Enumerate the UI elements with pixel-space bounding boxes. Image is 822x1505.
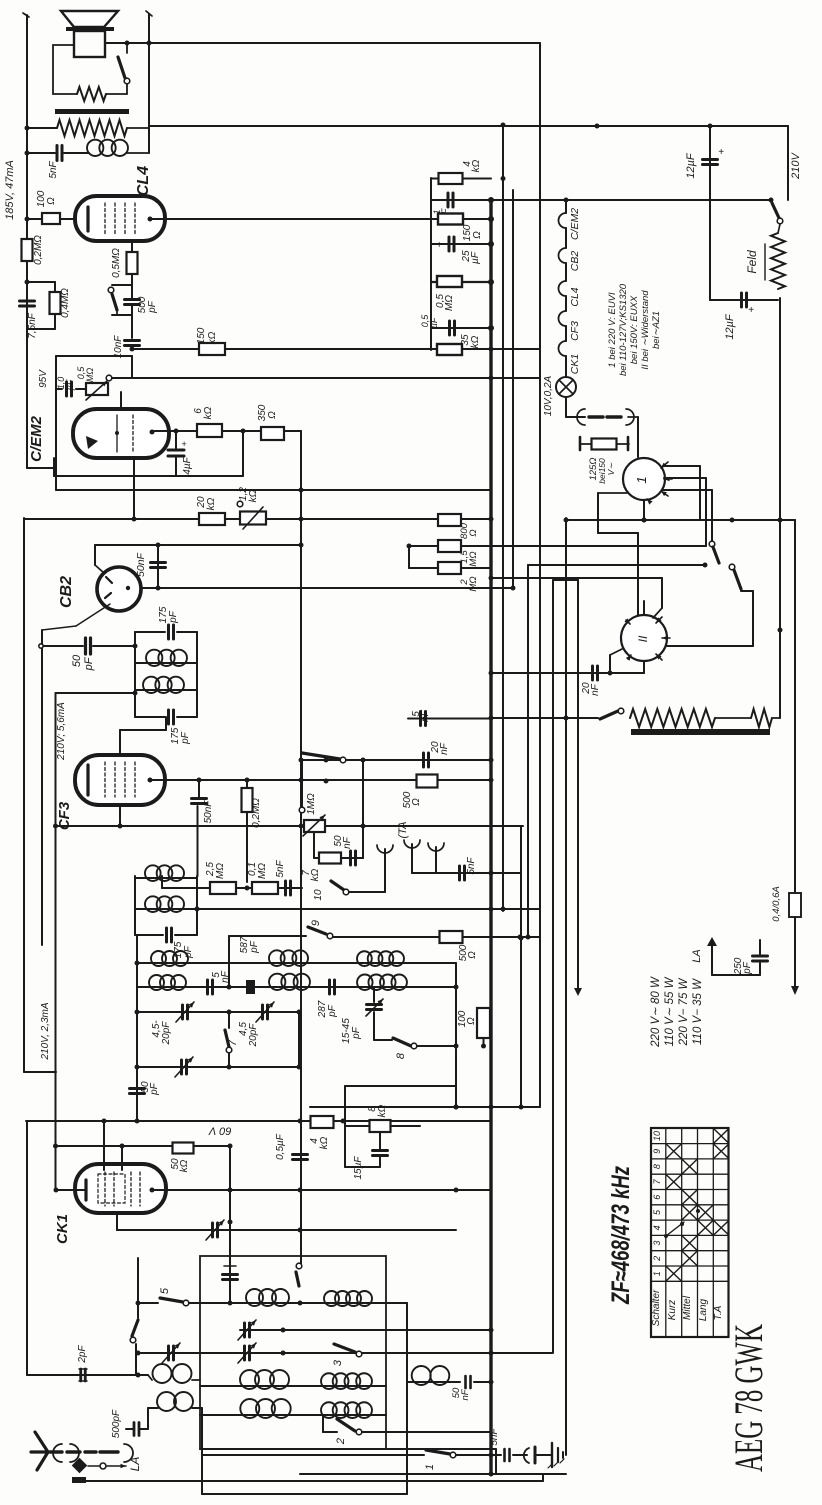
svg-text:nF: nF xyxy=(460,1388,471,1400)
svg-text:II bei ∼Widerstand: II bei ∼Widerstand xyxy=(640,290,651,370)
svg-text:4µF: 4µF xyxy=(182,456,193,474)
svg-text:7,5nF: 7,5nF xyxy=(27,312,38,338)
svg-text:5: 5 xyxy=(159,1287,171,1294)
svg-text:T.A: T.A xyxy=(713,1305,724,1320)
svg-text:Schalter: Schalter xyxy=(651,1289,662,1326)
svg-text:Ω: Ω xyxy=(466,1017,477,1025)
svg-text:5nF: 5nF xyxy=(466,856,477,874)
svg-text:210V: 210V xyxy=(790,151,802,179)
svg-text:Kurz: Kurz xyxy=(667,1300,678,1321)
svg-text:Lang: Lang xyxy=(698,1298,709,1321)
svg-text:(TA: (TA xyxy=(397,822,409,839)
svg-text:pF: pF xyxy=(351,1026,362,1040)
svg-text:2: 2 xyxy=(652,1256,662,1262)
svg-text:+: + xyxy=(748,305,754,316)
svg-text:0,5µF: 0,5µF xyxy=(275,1133,286,1160)
svg-text:0,4/0,6A: 0,4/0,6A xyxy=(771,886,782,921)
svg-text:210V, 2,3mA: 210V, 2,3mA xyxy=(40,1002,51,1060)
svg-text:1: 1 xyxy=(652,1271,662,1276)
svg-text:220 V− 75 W: 220 V− 75 W xyxy=(678,977,690,1046)
svg-text:3: 3 xyxy=(652,1241,662,1246)
svg-text:µF: µF xyxy=(470,251,481,264)
svg-text:pF: pF xyxy=(168,610,179,624)
svg-text:LA: LA xyxy=(128,1457,142,1472)
svg-text:2pF: 2pF xyxy=(77,1344,88,1363)
svg-text:0,2MΩ: 0,2MΩ xyxy=(33,235,44,265)
svg-text:0,4MΩ: 0,4MΩ xyxy=(60,288,71,318)
svg-text:1 bei 220 V: EUVI: 1 bei 220 V: EUVI xyxy=(607,292,618,368)
svg-text:kΩ: kΩ xyxy=(248,489,259,502)
svg-text:3: 3 xyxy=(332,1359,344,1366)
svg-text:nF: nF xyxy=(342,836,353,849)
svg-text:10nF: 10nF xyxy=(113,335,124,359)
svg-text:CL4: CL4 xyxy=(569,287,581,306)
svg-text:50nF: 50nF xyxy=(135,552,147,577)
svg-text:+: + xyxy=(181,439,186,449)
svg-text:10: 10 xyxy=(313,889,324,901)
svg-text:CB2: CB2 xyxy=(569,251,581,272)
svg-text:Ω: Ω xyxy=(267,411,278,419)
svg-text:Ω: Ω xyxy=(411,798,422,806)
svg-text:9: 9 xyxy=(652,1149,662,1154)
svg-text:7: 7 xyxy=(227,1039,239,1046)
svg-text:AEG 78 GWK: AEG 78 GWK xyxy=(726,1324,771,1472)
svg-text:µF: µF xyxy=(429,317,439,328)
svg-text:CF3: CF3 xyxy=(569,321,581,341)
svg-text:kΩ: kΩ xyxy=(206,497,217,510)
svg-text:10V,0,2A: 10V,0,2A xyxy=(543,375,554,416)
svg-text:CL4: CL4 xyxy=(135,166,152,196)
svg-text:10: 10 xyxy=(652,1131,662,1141)
svg-text:Λ 09: Λ 09 xyxy=(208,1126,231,1138)
svg-text:220 V∼ 80 W: 220 V∼ 80 W xyxy=(650,976,662,1048)
svg-text:0,5MΩ: 0,5MΩ xyxy=(111,248,122,278)
svg-text:nF: nF xyxy=(590,683,601,696)
svg-text:1: 1 xyxy=(424,1464,436,1470)
svg-text:Ω: Ω xyxy=(467,951,478,959)
svg-text:kΩ: kΩ xyxy=(207,331,218,344)
svg-text:+: + xyxy=(436,240,442,251)
svg-text:12µF: 12µF xyxy=(685,152,697,179)
svg-text:bei 150V: EUXX: bei 150V: EUXX xyxy=(629,295,640,364)
svg-text:bei∼AZ1: bei∼AZ1 xyxy=(651,311,662,349)
svg-text:1MΩ: 1MΩ xyxy=(306,793,317,815)
svg-text:2: 2 xyxy=(335,1438,347,1445)
svg-text:kΩ: kΩ xyxy=(203,406,214,419)
svg-text:0,2MΩ: 0,2MΩ xyxy=(251,798,262,828)
svg-text:95V: 95V xyxy=(38,369,49,388)
svg-text:50nF: 50nF xyxy=(203,800,214,824)
svg-text:kΩ: kΩ xyxy=(310,868,321,881)
svg-text:V∼: V∼ xyxy=(606,462,616,476)
svg-text:185V, 47mA: 185V, 47mA xyxy=(4,160,16,220)
svg-text:20pF: 20pF xyxy=(161,1021,172,1046)
svg-text:110 V∼ 55 W: 110 V∼ 55 W xyxy=(664,976,676,1046)
svg-text:9: 9 xyxy=(310,920,322,926)
svg-text:Feld: Feld xyxy=(745,250,759,274)
svg-text:1: 1 xyxy=(634,476,649,483)
svg-text:210V; 5,6mA: 210V; 5,6mA xyxy=(56,702,67,761)
svg-text:bei 110-127V;KS1320: bei 110-127V;KS1320 xyxy=(618,283,629,376)
svg-text:MΩ: MΩ xyxy=(215,863,226,879)
svg-text:LA: LA xyxy=(691,949,703,962)
svg-text:110 V− 35 W: 110 V− 35 W xyxy=(692,978,704,1045)
svg-text:Ω: Ω xyxy=(468,529,479,536)
svg-text:ZF≈468/473 kHz: ZF≈468/473 kHz xyxy=(607,1166,635,1305)
svg-text:pF: pF xyxy=(742,961,753,975)
svg-text:kΩ: kΩ xyxy=(471,159,482,172)
svg-text:CB2: CB2 xyxy=(58,576,75,608)
svg-text:MΩ: MΩ xyxy=(468,551,479,566)
svg-text:CK1: CK1 xyxy=(54,1214,71,1244)
svg-text:C/EM2: C/EM2 xyxy=(569,208,581,240)
svg-text:50: 50 xyxy=(71,654,83,667)
svg-text:500pF: 500pF xyxy=(111,1409,122,1438)
svg-text:pF: pF xyxy=(83,656,95,671)
svg-text:20pF: 20pF xyxy=(248,1023,259,1048)
svg-text:pF: pF xyxy=(180,731,191,745)
svg-text:pF: pF xyxy=(249,940,260,954)
svg-text:Ω: Ω xyxy=(46,197,57,205)
svg-text:Mittel: Mittel xyxy=(682,1295,693,1320)
svg-text:MΩ: MΩ xyxy=(444,295,455,311)
svg-text:5nF: 5nF xyxy=(48,160,59,178)
svg-text:150: 150 xyxy=(196,327,207,344)
svg-text:CK1: CK1 xyxy=(569,354,581,374)
svg-text:+: + xyxy=(718,147,724,158)
svg-text:C/EM2: C/EM2 xyxy=(28,415,45,462)
svg-text:pF: pF xyxy=(327,1004,338,1018)
svg-text:5nF: 5nF xyxy=(275,859,286,877)
svg-text:MΩ: MΩ xyxy=(85,368,95,382)
svg-text:MΩ: MΩ xyxy=(257,863,268,879)
svg-text:8: 8 xyxy=(395,1052,407,1059)
svg-text:II: II xyxy=(636,635,650,642)
svg-text:8: 8 xyxy=(652,1164,662,1169)
svg-text:kΩ: kΩ xyxy=(319,1136,330,1149)
svg-text:nF: nF xyxy=(439,742,450,755)
svg-text:12µF: 12µF xyxy=(724,313,736,340)
svg-text:4: 4 xyxy=(652,1225,662,1230)
svg-text:pF: pF xyxy=(149,1082,160,1096)
svg-text:kΩ: kΩ xyxy=(470,335,481,348)
svg-text:Ω: Ω xyxy=(472,231,483,239)
svg-text:pF: pF xyxy=(147,300,158,314)
svg-text:6: 6 xyxy=(652,1195,662,1200)
svg-text:MΩ: MΩ xyxy=(468,576,479,591)
svg-text:µF: µF xyxy=(65,379,75,390)
svg-text:kΩ: kΩ xyxy=(179,1159,190,1172)
